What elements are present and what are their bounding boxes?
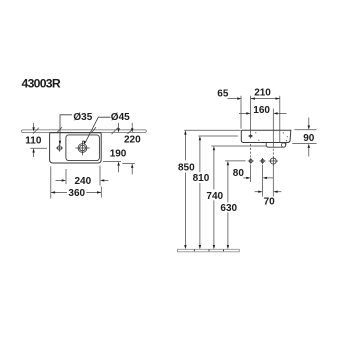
svg-text:630: 630	[220, 203, 237, 214]
svg-text:740: 740	[206, 191, 223, 202]
svg-text:160: 160	[253, 105, 270, 116]
svg-text:80: 80	[233, 168, 245, 179]
svg-text:Ø35: Ø35	[73, 112, 92, 123]
svg-text:70: 70	[264, 196, 276, 207]
svg-text:110: 110	[25, 136, 42, 147]
svg-text:Ø45: Ø45	[111, 112, 130, 123]
svg-text:43003R: 43003R	[22, 77, 61, 91]
svg-text:90: 90	[303, 133, 315, 144]
svg-text:360: 360	[68, 188, 85, 199]
svg-text:65: 65	[217, 88, 229, 99]
svg-text:210: 210	[254, 87, 271, 98]
svg-text:240: 240	[75, 176, 92, 187]
svg-text:850: 850	[178, 163, 195, 174]
svg-text:190: 190	[110, 148, 127, 159]
svg-text:220: 220	[124, 135, 141, 146]
svg-text:810: 810	[193, 173, 210, 184]
